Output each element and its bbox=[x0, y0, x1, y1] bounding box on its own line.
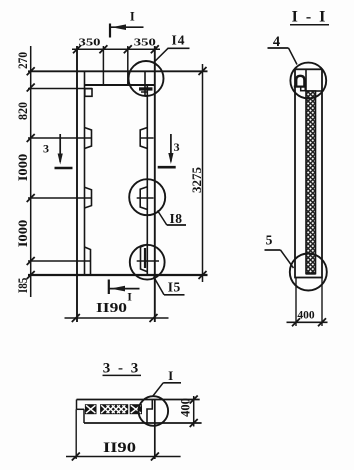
svg-text:820: 820 bbox=[15, 102, 30, 120]
svg-text:I4: I4 bbox=[171, 33, 185, 48]
svg-text:I5: I5 bbox=[168, 280, 181, 295]
svg-text:270: 270 bbox=[15, 52, 30, 69]
svg-text:II90: II90 bbox=[96, 300, 127, 315]
svg-text:I8: I8 bbox=[169, 211, 182, 226]
svg-text:3 - 3: 3 - 3 bbox=[103, 361, 141, 377]
svg-text:II90: II90 bbox=[103, 440, 136, 456]
svg-text:400: 400 bbox=[179, 398, 193, 417]
svg-text:I000: I000 bbox=[15, 220, 30, 248]
svg-text:I: I bbox=[130, 10, 135, 24]
svg-text:I85: I85 bbox=[15, 277, 30, 293]
svg-text:3: 3 bbox=[174, 140, 180, 154]
svg-text:4: 4 bbox=[273, 34, 280, 50]
svg-text:I000: I000 bbox=[15, 154, 30, 182]
svg-text:I: I bbox=[127, 290, 132, 304]
svg-text:3275: 3275 bbox=[189, 167, 204, 194]
svg-text:400: 400 bbox=[297, 310, 315, 322]
svg-text:3: 3 bbox=[43, 141, 49, 155]
svg-text:350: 350 bbox=[79, 37, 101, 48]
svg-text:5: 5 bbox=[266, 233, 273, 248]
svg-text:I - I: I - I bbox=[292, 9, 328, 26]
svg-text:I: I bbox=[168, 368, 173, 383]
svg-text:350: 350 bbox=[134, 37, 156, 48]
